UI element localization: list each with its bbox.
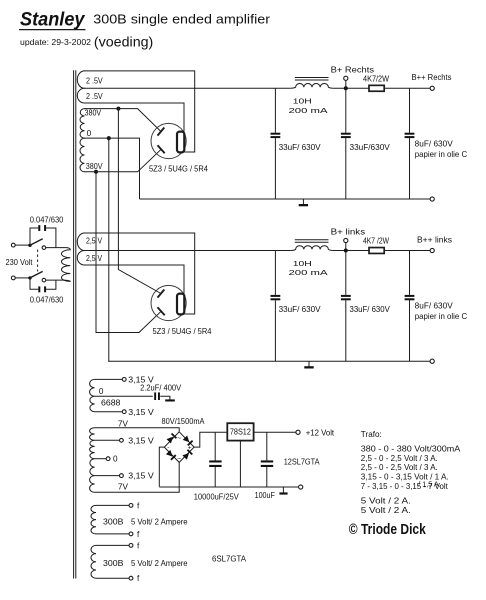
wire drop 380V top to V2 upper anode [118,109,160,294]
node dot S2 380V bottom tap [94,170,98,174]
svg-text:7V: 7V [118,482,129,491]
svg-text:2,5 V: 2,5 V [86,237,103,246]
wire S3 bottom tap to V2 filament top [84,265,184,294]
svg-text:0: 0 [99,387,104,396]
terminal S7 f top [129,544,133,548]
regulator U1 78S12 box [227,423,253,440]
wire S2 centre tap to rechts ground rail [84,138,140,199]
capacitor Crechts3 branch wire bottom [409,138,411,199]
svg-text:230 Volt: 230 Volt [6,258,34,267]
wire S5 0 tap [95,458,107,460]
svg-text:Stanley: Stanley [20,9,86,31]
svg-text:0.047/630: 0.047/630 [30,216,64,225]
rectifier tube V2 5Z3/5U4G/5R4 envelope [151,285,186,320]
transformer primary winding 230V [61,248,70,282]
terminal S6 f top [129,504,133,508]
wire S7 top tap [96,544,129,546]
svg-text:5Z3 / 5U4G / 5R4: 5Z3 / 5U4G / 5R4 [153,327,212,336]
wire S2 380V top tap to V1 upper anode [84,109,161,132]
wire S1 top tap to V1 filament (via right leg) [84,71,195,152]
capacitor Clinks1 [271,295,281,297]
choke L 10H 200mA rechts [291,83,332,88]
capacitor Clinks3 branch wire top [409,251,411,295]
bridge diode D4 (bottom-right side) [182,449,193,460]
wire S3 top tap to V2 filament (via right leg) [84,233,195,314]
capacitor Crechts1 branch wire top [274,88,276,132]
tube V2 lower anode plate [158,307,165,315]
terminal B- rechts [430,197,434,201]
bridge diode D3 (left-bottom side) [166,450,177,461]
capacitor Clinks3 branch wire bottom [409,300,411,361]
svg-text:78S12: 78S12 [230,428,251,437]
switch SW1b blade [30,271,43,278]
svg-text:380 - 0 - 380 Volt/300mA: 380 - 0 - 380 Volt/300mA [361,444,461,454]
svg-text:3,15 V: 3,15 V [128,436,154,445]
wire mains N to switch [15,277,28,279]
secondary S2 380-0-380 winding [80,109,85,172]
wire S6 top tap [96,504,129,506]
wire S5 7V bottom tap to bridge AC2 [95,462,180,492]
terminal mains L [11,243,15,247]
switch SW1b contact [42,278,46,282]
capacitor 2.2uF/400V plates [154,392,156,400]
wire bridge minus to 12V ground rail [159,447,164,487]
secondary S4 3,15-0-3,15 (6688) winding [90,379,95,411]
svg-text:0: 0 [113,455,118,464]
switch SW1a pivot [28,244,31,247]
wire cap top right leg [46,228,56,248]
switch SW1a blade [30,239,43,246]
svg-text:200 mA: 200 mA [289,106,329,115]
wire bridge plus to regulator input [194,432,296,447]
svg-text:10000uF/25V: 10000uF/25V [194,492,239,501]
svg-text:-: - [167,445,169,452]
svg-text:33uF/ 630V: 33uF/ 630V [279,143,322,152]
capacitor 100uF branch top [266,432,268,460]
terminal mains N [11,276,15,280]
ground symbol 6688 CT [165,399,175,401]
svg-text:~: ~ [177,455,181,462]
tube V1 upper anode plate [158,128,165,136]
bridge rectifier BR1 diamond [164,432,194,463]
wire S4 centre tap to 2.2uF [95,395,153,397]
svg-text:Trafo:: Trafo: [361,429,382,439]
wire cap top left leg [30,228,38,245]
svg-text:3,15 V: 3,15 V [128,408,154,417]
wire choke to B++ rechts [332,87,430,89]
capacitor Clinks2 branch wire bottom [345,300,347,361]
wire 2.2uF to ground [160,396,170,399]
svg-text:2,5 - 0 - 2,5 Volt / 3 A.: 2,5 - 0 - 2,5 Volt / 3 A. [361,462,438,472]
switch SW1a contact [42,246,46,250]
svg-text:2 .5V: 2 .5V [86,76,103,85]
svg-text:300B: 300B [103,517,124,526]
capacitor Crechts2 branch wire top [345,88,347,132]
wire B+ run links (filament CT to choke) [84,250,291,252]
svg-text:10H: 10H [293,259,312,268]
transformer T1 core [73,70,75,578]
resistor 4K7/2W rechts [369,85,384,91]
wire S1 bottom tap to V1 filament top [84,103,184,132]
svg-text:12SL7GTA: 12SL7GTA [284,457,320,466]
svg-text:80V/1500mA: 80V/1500mA [162,417,205,426]
switch gang dashed link [37,250,39,272]
wire SW1a to primary [46,247,67,249]
ground symbol rechts [302,199,304,205]
ground rail links [109,360,430,362]
svg-text:© Triode Dick: © Triode Dick [349,521,426,538]
tube V2 filament [177,294,184,315]
terminal +12 Volt [296,430,300,434]
bridge diode D1 (left-top side) [166,433,177,444]
capacitor 0.047/630 top plates [38,225,40,231]
svg-text:papier in olie C: papier in olie C [415,150,468,159]
terminal S5 0 [106,457,110,461]
svg-text:10H: 10H [293,97,312,106]
capacitor 10000uF/25V branch top [214,432,216,460]
terminal B- links [430,359,434,363]
terminal 12V rail end [299,485,303,489]
ground symbol links [308,361,310,367]
capacitor Crechts1 branch wire bottom [274,138,276,199]
svg-text:papier in olie C: papier in olie C [415,312,468,321]
svg-text:B++ Rechts: B++ Rechts [412,73,452,82]
svg-text:update: 29-3-2002: update: 29-3-2002 [20,37,91,47]
capacitor 100uF branch bottom [266,467,268,487]
rectifier tube V1 5Z3/5U4G/5R4 envelope [151,123,186,158]
capacitor Crechts3 [405,133,415,135]
capacitor Clinks2 branch wire top [345,251,347,295]
wire S4 top tap [95,378,123,380]
terminal S5 3,15V upper [120,438,124,442]
wire mains L to switch [15,244,28,246]
secondary S7 300B 5V winding [91,545,96,578]
svg-text:/ 1,5 A.: / 1,5 A. [418,480,440,489]
tube V2 upper anode plate [158,290,165,298]
wire S7 bottom tap [96,577,129,579]
svg-text:4K7 /2W: 4K7 /2W [363,237,389,246]
wire S2 380V bottom tap to V1 lower anode [84,149,161,172]
capacitor Crechts3 branch wire top [409,88,411,132]
tube V1 filament [177,132,184,153]
svg-text:2.2uF/ 400V: 2.2uF/ 400V [140,384,181,393]
terminal B++ B++ Rechts [430,86,434,90]
svg-text:33uF/ 630V: 33uF/ 630V [279,305,322,314]
wire S5 7V top tap to bridge AC1 [95,428,180,432]
secondary S6 300B 5V winding [91,505,96,534]
capacitor Clinks1 branch wire bottom [274,300,276,361]
wire cap bottom right leg [46,280,56,289]
capacitor 100uF plates [261,460,273,462]
choke L 10H 200mA links [291,246,332,251]
svg-text:2 .5V: 2 .5V [86,92,103,101]
wire drop centre tap to links ground rail [108,138,110,362]
capacitor Clinks3 [405,295,415,297]
svg-text:6688: 6688 [101,399,121,408]
svg-text:0.047/630: 0.047/630 [30,296,64,305]
svg-text:300B single ended amplifier: 300B single ended amplifier [93,12,270,27]
svg-text:B++ links: B++ links [417,235,452,244]
terminal B+ B+ links [345,243,347,251]
wire choke to B++ links [332,250,430,252]
svg-text:8uF/ 630V: 8uF/ 630V [415,302,454,311]
terminal S7 f bottom [129,576,133,580]
title underline [19,29,86,31]
node dot S2 380V top tap [116,107,120,111]
svg-text:8uF/ 630V: 8uF/ 630V [415,139,454,148]
resistor 4K7/2W links [369,248,384,254]
svg-text:380V: 380V [85,109,102,118]
node dot S2 centre tap [107,136,111,140]
secondary S3 2,5V-0-2,5V (V2 filament) winding [77,233,84,265]
svg-text:B+ links: B+ links [331,228,366,237]
svg-text:(voeding): (voeding) [94,35,153,51]
wire S4 bottom tap [95,411,123,413]
capacitor 10000uF/25V branch bottom [214,467,216,487]
node dot B+ rechts [344,86,348,90]
svg-text:5 Volt/ 2 Ampere: 5 Volt/ 2 Ampere [131,517,188,526]
capacitor Clinks2 [341,295,351,297]
capacitor Crechts2 branch wire bottom [345,138,347,199]
svg-text:7V: 7V [118,420,129,429]
capacitor Crechts2 [341,133,351,135]
svg-text:0: 0 [87,129,92,138]
wire cap bottom left leg [30,278,38,289]
wire S5 3,15V tap lower [95,475,120,477]
wire drop 380V bottom to V2 lower anode [96,172,161,333]
secondary S1 2.5V-0-2.5V (V1 filament) winding [77,71,84,103]
ground rail rechts [140,198,431,200]
svg-text:+12 Volt: +12 Volt [306,428,335,437]
svg-text:100uF: 100uF [255,491,275,500]
capacitor 10000uF/25V plates [209,460,221,462]
wire S6 bottom tap [96,533,129,535]
capacitor 0.047/630 bottom plates [38,286,40,292]
terminal B++ B++ links [430,248,434,252]
terminal S4 top 3,15V [122,378,126,382]
node dot B+ links [344,249,348,253]
bridge diode D2 (top-right side) [182,435,193,446]
switch SW1b pivot [28,276,31,279]
svg-text:5 Volt / 2 A.: 5 Volt / 2 A. [361,505,411,515]
secondary S5 7-3,15-0-3,15-7 winding [90,428,95,493]
svg-text:5 Volt/ 2 Ampere: 5 Volt/ 2 Ampere [131,559,188,568]
svg-text:300B: 300B [103,559,124,568]
ground rail 12V section [159,486,298,488]
terminal B+ B+ Rechts [345,80,347,88]
svg-text:33uF/630V: 33uF/630V [350,143,391,152]
wire B+ run rechts (filament CT to choke) [84,87,291,89]
ground symbol 12V rail [282,487,284,493]
svg-text:33uF/ 630V: 33uF/ 630V [350,305,391,314]
wire regulator ground pin [239,441,241,487]
svg-text:200 mA: 200 mA [289,268,329,277]
svg-text:4K7/2W: 4K7/2W [363,74,389,83]
tube V1 lower anode plate [158,145,165,153]
svg-text:B+ Rechts: B+ Rechts [331,65,374,74]
svg-text:380V: 380V [86,162,103,171]
svg-text:2,5 V: 2,5 V [86,254,103,263]
terminal S4 bottom 3,15V [122,410,126,414]
terminal S6 f bottom [129,532,133,536]
svg-text:6SL7GTA: 6SL7GTA [212,554,247,563]
svg-text:5Z3 / 5U4G / 5R4: 5Z3 / 5U4G / 5R4 [149,165,208,174]
terminal S5 3,15V lower [120,474,124,478]
capacitor Clinks1 branch wire top [274,251,276,295]
wire S5 3,15V tap upper [95,439,120,441]
svg-text:3,15 V: 3,15 V [128,472,154,481]
capacitor Crechts1 [271,133,281,135]
wire SW1b to primary [46,279,65,281]
svg-text:+: + [188,445,192,452]
svg-text:~: ~ [177,435,181,442]
